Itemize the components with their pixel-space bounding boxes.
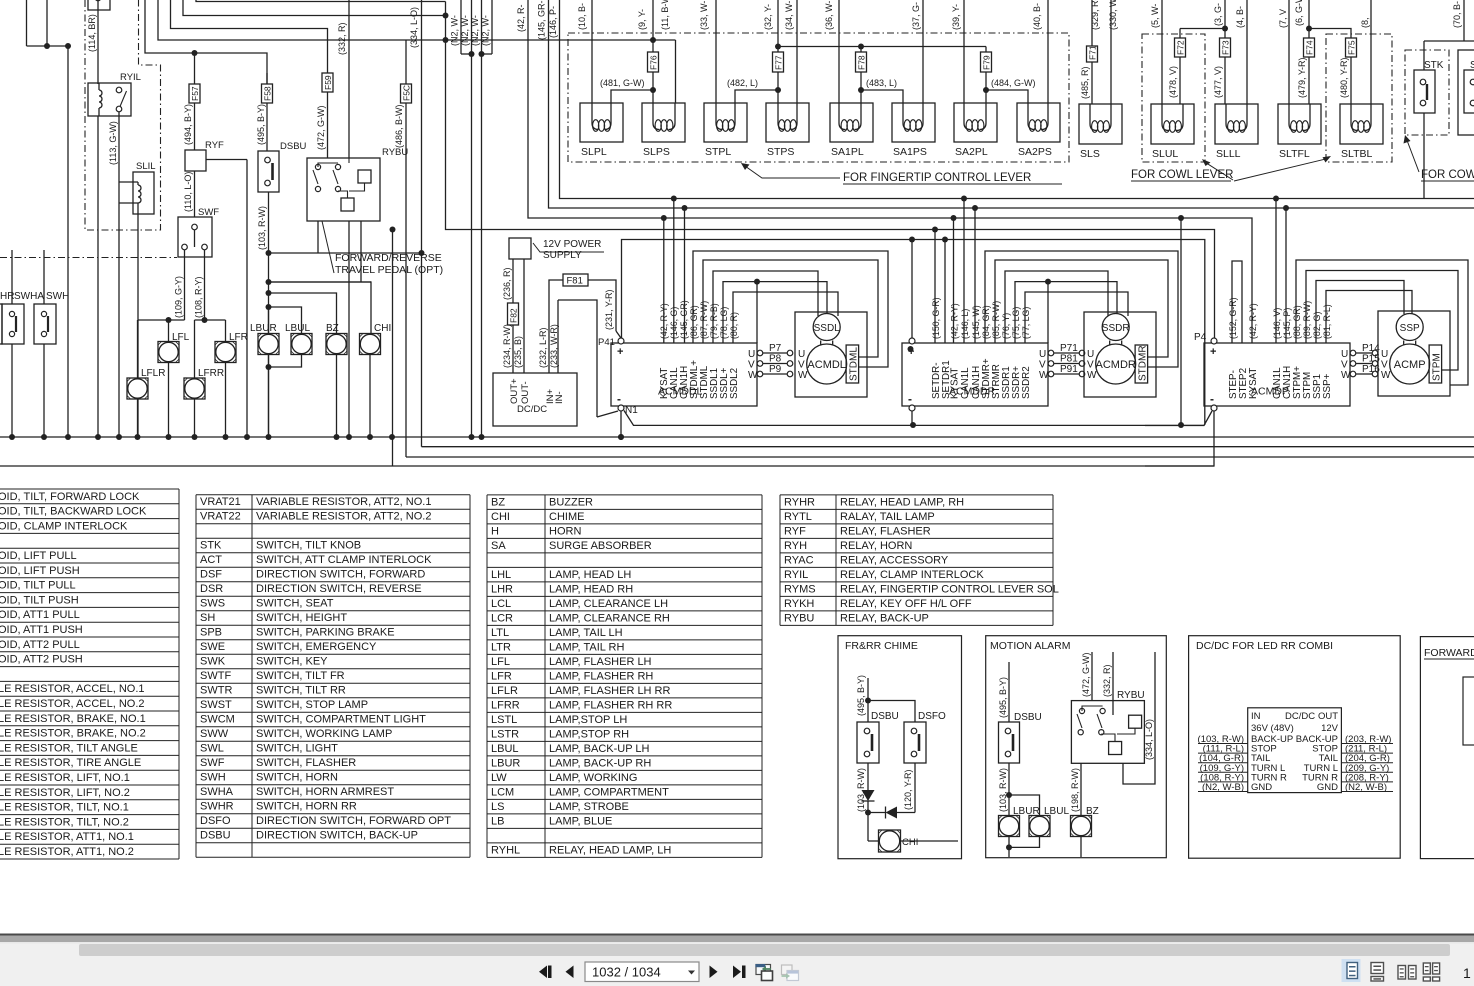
dc/dc converter LED <box>1248 708 1342 793</box>
svg-text:(479, Y-R): (479, Y-R) <box>1297 57 1307 98</box>
relay RYF <box>185 150 206 171</box>
svg-text:LE RESISTOR, ACCEL, NO.1: LE RESISTOR, ACCEL, NO.1 <box>0 683 145 695</box>
svg-text:F78: F78 <box>857 55 867 70</box>
svg-text:RYMS: RYMS <box>784 583 816 595</box>
svg-text:(232, L-R): (232, L-R) <box>538 327 548 368</box>
svg-text:(103, R-W): (103, R-W) <box>257 206 267 250</box>
svg-text:F77: F77 <box>774 55 784 70</box>
svg-text:OID, ATT2 PULL: OID, ATT2 PULL <box>0 639 80 651</box>
svg-text:SWITCH, COMPARTMENT LIGHT: SWITCH, COMPARTMENT LIGHT <box>256 714 426 726</box>
wire (103, R-W) <box>268 192 270 437</box>
wire (234, R-W) <box>512 325 514 373</box>
wire <box>1180 28 1225 30</box>
svg-text:OID, TILT, BACKWARD LOCK: OID, TILT, BACKWARD LOCK <box>0 506 147 518</box>
wire (N2, W-B) bundle <box>460 0 462 54</box>
terminal <box>909 405 915 411</box>
svg-text:SLS: SLS <box>1080 148 1100 160</box>
wire bus C <box>528 0 1252 343</box>
wire bus <box>406 456 1474 458</box>
box DC/DC FOR LED RR COMBI <box>1189 636 1401 859</box>
wire <box>693 251 888 367</box>
svg-text:(329, R-: (329, R- <box>1090 0 1100 30</box>
svg-text:SLTFL: SLTFL <box>1279 148 1310 160</box>
svg-text:(231, Y-R): (231, Y-R) <box>604 289 614 330</box>
svg-text:(146, V): (146, V) <box>1272 308 1282 339</box>
legend table 2 <box>195 495 197 858</box>
svg-text:STDMR: STDMR <box>1138 345 1149 381</box>
controller ACMDDR <box>902 343 1048 406</box>
toolbar nav prev page <box>566 966 574 979</box>
svg-text:F72: F72 <box>1176 40 1186 55</box>
svg-text:(42, R-Y): (42, R-Y) <box>1248 303 1258 339</box>
svg-text:LHR: LHR <box>491 583 513 595</box>
motor ACMP <box>1390 344 1430 384</box>
solenoid SLPS <box>642 103 685 142</box>
wire <box>911 411 913 425</box>
svg-text:LAMP, WORKING: LAMP, WORKING <box>549 772 637 784</box>
svg-text:P7: P7 <box>769 343 782 354</box>
wire <box>1316 281 1404 344</box>
svg-text:F82: F82 <box>509 308 519 323</box>
svg-text:(89, R-W): (89, R-W) <box>1302 301 1312 339</box>
svg-text:RELAY, BACK-UP: RELAY, BACK-UP <box>840 612 929 624</box>
svg-text:DSR: DSR <box>200 583 223 595</box>
fuse F81 <box>563 274 588 286</box>
svg-text:LS: LS <box>491 801 504 813</box>
svg-text:(86, GR): (86, GR) <box>689 305 699 339</box>
wire <box>934 230 936 344</box>
svg-text:U: U <box>1341 349 1348 360</box>
svg-text:(70, B-: (70, B- <box>1452 1 1462 28</box>
svg-text:(5, W-: (5, W- <box>1150 4 1160 28</box>
wire (334, L-O) <box>421 0 423 447</box>
svg-text:P8: P8 <box>769 354 782 365</box>
svg-text:CHI: CHI <box>902 837 918 848</box>
wire <box>591 0 593 103</box>
svg-text:SWITCH, HORN RR: SWITCH, HORN RR <box>256 801 357 813</box>
svg-text:SWF: SWF <box>198 207 219 218</box>
terminal P41 <box>618 338 624 344</box>
svg-text:U: U <box>1039 349 1046 360</box>
svg-text:RELAY, FINGERTIP CONTROL LEVER: RELAY, FINGERTIP CONTROL LEVER SOL <box>840 583 1059 595</box>
svg-text:KYSAT: KYSAT <box>949 368 960 399</box>
svg-text:V: V <box>1087 360 1094 371</box>
svg-text:F59: F59 <box>323 75 333 90</box>
enclosure right switch <box>1458 50 1474 135</box>
wire <box>620 411 622 437</box>
toolbar nav first page <box>539 966 547 979</box>
legend table 4 <box>779 495 781 626</box>
wire <box>392 230 394 467</box>
terminal P4 <box>1211 338 1217 344</box>
svg-text:LAMP, STROBE: LAMP, STROBE <box>549 801 629 813</box>
solenoid SLPL <box>580 103 623 142</box>
svg-text:SSDR: SSDR <box>1102 323 1130 334</box>
svg-text:STDML: STDML <box>849 347 860 381</box>
wire (334, L-O) (alarm) <box>1123 652 1155 784</box>
svg-text:(103, R-W): (103, R-W) <box>856 768 866 812</box>
svg-text:IN-: IN- <box>554 391 565 404</box>
wire bus y46.5 <box>778 46 986 48</box>
svg-text:(78, LG): (78, LG) <box>719 307 729 339</box>
fuse F58 <box>266 73 268 84</box>
svg-text:(146, P-: (146, P- <box>548 6 558 38</box>
wire (495, B-Y) <box>867 678 869 722</box>
svg-text:SWITCH, ATT CLAMP INTERLOCK: SWITCH, ATT CLAMP INTERLOCK <box>256 554 432 566</box>
wire <box>1275 199 1277 344</box>
svg-text:SA1PL: SA1PL <box>831 146 864 158</box>
svg-text:RYHR: RYHR <box>784 496 815 508</box>
wire <box>317 221 319 253</box>
wire <box>985 251 1178 367</box>
svg-text:F71: F71 <box>1088 45 1098 60</box>
svg-text:W: W <box>748 370 758 381</box>
chime CHI <box>360 334 381 355</box>
fuse F72 <box>1179 29 1181 39</box>
svg-text:(87, R-W): (87, R-W) <box>699 301 709 339</box>
svg-text:F81: F81 <box>567 276 583 287</box>
svg-text:SWITCH, FLASHER: SWITCH, FLASHER <box>256 757 356 769</box>
svg-text:(81, R-L): (81, R-L) <box>1322 304 1332 339</box>
svg-text:(79, R-B): (79, R-B) <box>709 303 719 339</box>
svg-text:CHIME: CHIME <box>549 511 584 523</box>
wire (114, BR) <box>97 0 99 84</box>
wire bus A <box>560 0 1474 199</box>
svg-text:SWHR: SWHR <box>200 801 234 813</box>
svg-text:(480, Y-R): (480, Y-R) <box>1339 57 1349 98</box>
svg-text:(146, L): (146, L) <box>960 309 970 339</box>
svg-text:(N2, W-: (N2, W- <box>450 15 460 46</box>
svg-text:LE RESISTOR, TILT, NO.2: LE RESISTOR, TILT, NO.2 <box>0 816 129 828</box>
toolbar icon previous view <box>756 965 771 975</box>
svg-text:SSDL: SSDL <box>814 323 841 334</box>
svg-text:(150, G-R): (150, G-R) <box>931 297 941 339</box>
svg-text:SWS: SWS <box>200 598 225 610</box>
svg-text:VRAT21: VRAT21 <box>200 496 241 508</box>
svg-text:LE RESISTOR, TIRE ANGLE: LE RESISTOR, TIRE ANGLE <box>0 757 141 769</box>
svg-text:(477, V): (477, V) <box>1213 66 1223 98</box>
svg-text:LFR: LFR <box>491 670 512 682</box>
svg-text:(478, V): (478, V) <box>1168 66 1178 98</box>
12V power supply <box>509 238 531 259</box>
svg-text:W: W <box>1039 370 1049 381</box>
svg-text:ACMP: ACMP <box>1394 359 1426 371</box>
svg-text:LSTL: LSTL <box>491 714 517 726</box>
svg-text:(34, W-: (34, W- <box>784 1 794 30</box>
chime CHI (box) <box>879 830 901 852</box>
box FR&RR CHIME <box>838 636 962 859</box>
motor ACMDR <box>1096 344 1136 384</box>
svg-text:LTL: LTL <box>491 627 509 639</box>
svg-text:(11, B-W: (11, B-W <box>660 0 670 30</box>
svg-text:LFL: LFL <box>172 332 190 343</box>
svg-text:(N2, W-: (N2, W- <box>460 15 470 46</box>
svg-text:SWITCH, EMERGENCY: SWITCH, EMERGENCY <box>256 641 377 653</box>
svg-text:LAMP, BLUE: LAMP, BLUE <box>549 815 612 827</box>
svg-text:LSTR: LSTR <box>491 728 519 740</box>
sensor STDML <box>846 345 859 383</box>
toolbar icon single page view <box>1342 959 1361 982</box>
svg-text:LAMP,STOP LH: LAMP,STOP LH <box>549 714 627 726</box>
wire (481, G-W) <box>611 90 653 103</box>
svg-text:OUT+: OUT+ <box>509 378 520 404</box>
svg-text:P9: P9 <box>769 364 782 375</box>
wire STEP pair <box>1232 261 1242 343</box>
wire <box>713 271 818 343</box>
svg-text:LAMP, CLEARANCE RH: LAMP, CLEARANCE RH <box>549 612 670 624</box>
wire <box>1463 677 1474 745</box>
svg-text:F73: F73 <box>1221 40 1231 55</box>
wire (70, B-) <box>1463 0 1465 41</box>
svg-text:(233, W-R): (233, W-R) <box>549 324 559 368</box>
wire (233, W-R) <box>557 300 559 373</box>
wire (113, G-W) <box>118 112 120 437</box>
svg-text:LE RESISTOR, TILT, NO.1: LE RESISTOR, TILT, NO.1 <box>0 802 129 814</box>
wire (110, L-O) <box>194 171 196 217</box>
svg-text:OID, CLAMP INTERLOCK: OID, CLAMP INTERLOCK <box>0 520 128 532</box>
wire <box>138 319 185 321</box>
svg-text:OID, LIFT PUSH: OID, LIFT PUSH <box>0 565 80 577</box>
solenoid SLLL <box>1215 104 1258 144</box>
svg-text:P4: P4 <box>1194 332 1207 343</box>
svg-text:OID, TILT PULL: OID, TILT PULL <box>0 580 76 592</box>
fuse F57 <box>194 53 196 84</box>
svg-text:(3, G-: (3, G- <box>1213 3 1223 26</box>
lamp LBUL <box>291 334 312 355</box>
wire (482, L) <box>735 90 778 103</box>
svg-text:SH: SH <box>200 612 215 624</box>
svg-text:KYSAT: KYSAT <box>1248 368 1259 399</box>
svg-text:+: + <box>1210 346 1216 358</box>
motor assembly box ACMP <box>1378 311 1450 396</box>
svg-text:RELAY, KEY OFF H/L OFF: RELAY, KEY OFF H/L OFF <box>840 598 972 610</box>
dc/dc converter DC/DC <box>493 373 577 426</box>
svg-text:GND: GND <box>1317 782 1338 793</box>
svg-text:+: + <box>617 346 623 358</box>
wire <box>1145 411 1214 466</box>
svg-text:LW: LW <box>491 772 507 784</box>
svg-text:-: - <box>1210 392 1214 406</box>
svg-text:(472, G-W): (472, G-W) <box>1081 652 1091 697</box>
svg-text:F75: F75 <box>1347 40 1357 55</box>
solenoid SA1PS <box>892 103 935 142</box>
switch DSBU (alarm) <box>999 722 1020 763</box>
wire (495, B-Y) (alarm) <box>1008 662 1010 722</box>
svg-text:F57: F57 <box>190 86 200 101</box>
fuse F73 <box>1220 38 1231 57</box>
svg-text:(495, B-Y): (495, B-Y) <box>856 675 866 716</box>
svg-text:RYTL: RYTL <box>784 511 812 523</box>
lamp LFRR <box>184 378 205 399</box>
wire <box>266 290 272 296</box>
svg-text:DIRECTION SWITCH, FORWARD OPT: DIRECTION SWITCH, FORWARD OPT <box>256 815 451 827</box>
svg-text:P81: P81 <box>1060 354 1078 365</box>
svg-text:(109, G-Y): (109, G-Y) <box>174 276 184 318</box>
svg-text:(32, Y-: (32, Y- <box>763 4 773 30</box>
enclosure dash-dot left bottom <box>0 257 177 259</box>
svg-text:FOR COWL: FOR COWL <box>1421 169 1474 181</box>
svg-text:(145, GR-: (145, GR- <box>537 0 547 40</box>
fuse F77 <box>773 52 784 72</box>
wire (472, G-W) (alarm) <box>1091 652 1093 701</box>
svg-text:LFRR: LFRR <box>198 368 224 379</box>
wire <box>1180 218 1182 425</box>
svg-text:(234, R-W): (234, R-W) <box>502 324 512 368</box>
svg-text:(113, G-W): (113, G-W) <box>108 121 118 165</box>
svg-text:SA: SA <box>491 540 506 552</box>
svg-text:LAMP, FLASHER LH RR: LAMP, FLASHER LH RR <box>549 685 671 697</box>
svg-text:OID, TILT, FORWARD LOCK: OID, TILT, FORWARD LOCK <box>0 491 140 503</box>
svg-text:LFR: LFR <box>229 332 248 343</box>
wire <box>360 221 362 282</box>
svg-text:LCM: LCM <box>491 786 514 798</box>
svg-text:LE RESISTOR, ATT1, NO.1: LE RESISTOR, ATT1, NO.1 <box>0 831 134 843</box>
svg-text:RELAY, FLASHER: RELAY, FLASHER <box>840 525 931 537</box>
svg-text:LAMP, HEAD RH: LAMP, HEAD RH <box>549 583 633 595</box>
svg-text:SA2PL: SA2PL <box>955 146 988 158</box>
svg-text:DSBU: DSBU <box>200 830 231 842</box>
svg-text:LCL: LCL <box>491 598 511 610</box>
toolbar icon next view <box>782 965 793 975</box>
svg-text:LTR: LTR <box>491 641 511 653</box>
solenoid STPS <box>766 103 809 142</box>
svg-text:RYBU: RYBU <box>1117 690 1145 701</box>
svg-text:(152, G-R): (152, G-R) <box>1228 297 1238 339</box>
svg-text:(472, G-W): (472, G-W) <box>316 105 326 150</box>
svg-text:LBUR: LBUR <box>250 323 277 334</box>
toolbar <box>0 934 1474 936</box>
svg-text:(482, L): (482, L) <box>727 78 758 88</box>
box MOTION ALARM <box>986 636 1167 858</box>
toolbar icon continuous view <box>1371 963 1384 974</box>
wire bus E <box>622 240 1205 426</box>
sensor SSP <box>1396 314 1423 341</box>
fuse F78 <box>860 47 862 53</box>
svg-text:(332, R): (332, R) <box>1102 664 1112 697</box>
terminal <box>909 338 915 344</box>
svg-text:LFLR: LFLR <box>141 368 165 379</box>
svg-text:LFL: LFL <box>491 656 510 668</box>
svg-text:(236, R): (236, R) <box>502 267 512 300</box>
svg-text:MOTION ALARM: MOTION ALARM <box>990 640 1071 652</box>
wire <box>206 159 247 161</box>
svg-text:(481, G-W): (481, G-W) <box>600 78 645 88</box>
wire <box>145 0 267 84</box>
controller ACMDDL <box>611 343 757 406</box>
svg-text:F79: F79 <box>982 55 992 70</box>
svg-text:FOR COWL LEVER: FOR COWL LEVER <box>1131 169 1233 181</box>
switch SWHR <box>0 304 2 344</box>
svg-text:(484, G-W): (484, G-W) <box>991 78 1036 88</box>
solenoid SLTBL <box>1340 104 1383 144</box>
svg-text:(120, Y-R): (120, Y-R) <box>903 769 913 810</box>
svg-text:RYBU: RYBU <box>784 612 814 624</box>
box FORWARD <box>1420 637 1474 859</box>
svg-text:OID, TILT PUSH: OID, TILT PUSH <box>0 594 79 606</box>
wire <box>1309 29 1351 39</box>
svg-text:W: W <box>1087 370 1097 381</box>
wire bus B <box>549 0 1474 208</box>
svg-text:(145, GR): (145, GR) <box>679 300 689 339</box>
switch SWF <box>178 217 212 257</box>
diode <box>862 790 875 801</box>
enclosure dash-dot cowl 2 <box>1326 34 1392 162</box>
wire ground bus <box>0 436 1474 438</box>
switch SWHA <box>2 304 24 344</box>
svg-text:SUPPLY: SUPPLY <box>543 250 582 261</box>
sensor STDMR <box>1135 345 1148 383</box>
svg-text:12V: 12V <box>1321 723 1339 734</box>
svg-text:BUZZER: BUZZER <box>549 496 593 508</box>
svg-text:(33, W-: (33, W- <box>699 1 709 30</box>
svg-text:(84, GR): (84, GR) <box>981 305 991 339</box>
svg-text:DC/DC FOR LED RR COMBI: DC/DC FOR LED RR COMBI <box>1196 640 1333 652</box>
solenoid SA2PS <box>1017 103 1060 142</box>
svg-text:LE RESISTOR, LIFT, NO.1: LE RESISTOR, LIFT, NO.1 <box>0 772 130 784</box>
svg-text:LAMP, FLASHER RH RR: LAMP, FLASHER RH RR <box>549 699 672 711</box>
svg-text:RELAY, ACCESSORY: RELAY, ACCESSORY <box>840 554 949 566</box>
svg-text:(110, L-O): (110, L-O) <box>183 172 193 212</box>
toolbar icon two page view <box>1398 966 1406 980</box>
svg-text:(76, Y): (76, Y) <box>1001 313 1011 339</box>
scrollbar <box>79 944 1450 956</box>
svg-text:SWL: SWL <box>200 743 224 755</box>
switch STK <box>1414 70 1435 113</box>
svg-text:SLTBL: SLTBL <box>1341 148 1372 160</box>
svg-text:LAMP, COMPARTMENT: LAMP, COMPARTMENT <box>549 786 669 798</box>
svg-text:(80, R): (80, R) <box>729 312 739 339</box>
svg-text:(108, R-Y): (108, R-Y) <box>194 276 204 318</box>
wire <box>616 331 621 338</box>
svg-text:(42, R-Y): (42, R-Y) <box>949 303 959 339</box>
lamp LBUR (alarm) <box>999 816 1020 837</box>
relay RYBU <box>307 158 380 221</box>
svg-text:VRAT22: VRAT22 <box>200 511 241 523</box>
svg-text:SLPS: SLPS <box>643 146 670 158</box>
fuse F79 <box>985 47 987 53</box>
svg-text:SLLL: SLLL <box>1216 148 1241 160</box>
wire <box>171 0 328 73</box>
svg-text:SWW: SWW <box>200 728 229 740</box>
svg-text:TRAVEL PEDAL (OPT): TRAVEL PEDAL (OPT) <box>335 264 443 276</box>
svg-text:FORWARD/REVERSE: FORWARD/REVERSE <box>335 252 442 264</box>
terminal N1 <box>618 405 624 411</box>
svg-text:SWITCH, TILT FR: SWITCH, TILT FR <box>256 670 345 682</box>
svg-text:(10, B-: (10, B- <box>577 3 587 30</box>
svg-text:(85, R-W): (85, R-W) <box>991 301 1001 339</box>
solenoid SLS <box>1079 104 1122 144</box>
svg-text:SSP+: SSP+ <box>1322 373 1333 399</box>
svg-text:SSDR2: SSDR2 <box>1021 366 1032 399</box>
svg-text:RYHL: RYHL <box>491 844 520 856</box>
relay RYBU (alarm) <box>1071 701 1144 764</box>
svg-text:DIRECTION SWITCH, FORWARD: DIRECTION SWITCH, FORWARD <box>256 569 425 581</box>
sensor SSDL <box>813 314 840 341</box>
wire <box>183 0 446 16</box>
solenoid SLTFL <box>1278 104 1321 144</box>
svg-text:RELAY, HORN: RELAY, HORN <box>840 540 912 552</box>
fuse F82 <box>508 303 519 325</box>
wire bus lower <box>624 411 1204 426</box>
svg-text:SWH: SWH <box>46 291 69 302</box>
svg-text:(145, W): (145, W) <box>971 305 981 339</box>
label FOR FINGERTIP CONTROL LEVER <box>745 166 840 178</box>
svg-text:IN: IN <box>1251 711 1261 722</box>
svg-text:W: W <box>798 370 808 381</box>
svg-text:DC/DC: DC/DC <box>517 404 547 415</box>
svg-text:(334, L-O): (334, L-O) <box>1144 719 1154 760</box>
svg-text:LE RESISTOR, LIFT, NO.2: LE RESISTOR, LIFT, NO.2 <box>0 787 130 799</box>
